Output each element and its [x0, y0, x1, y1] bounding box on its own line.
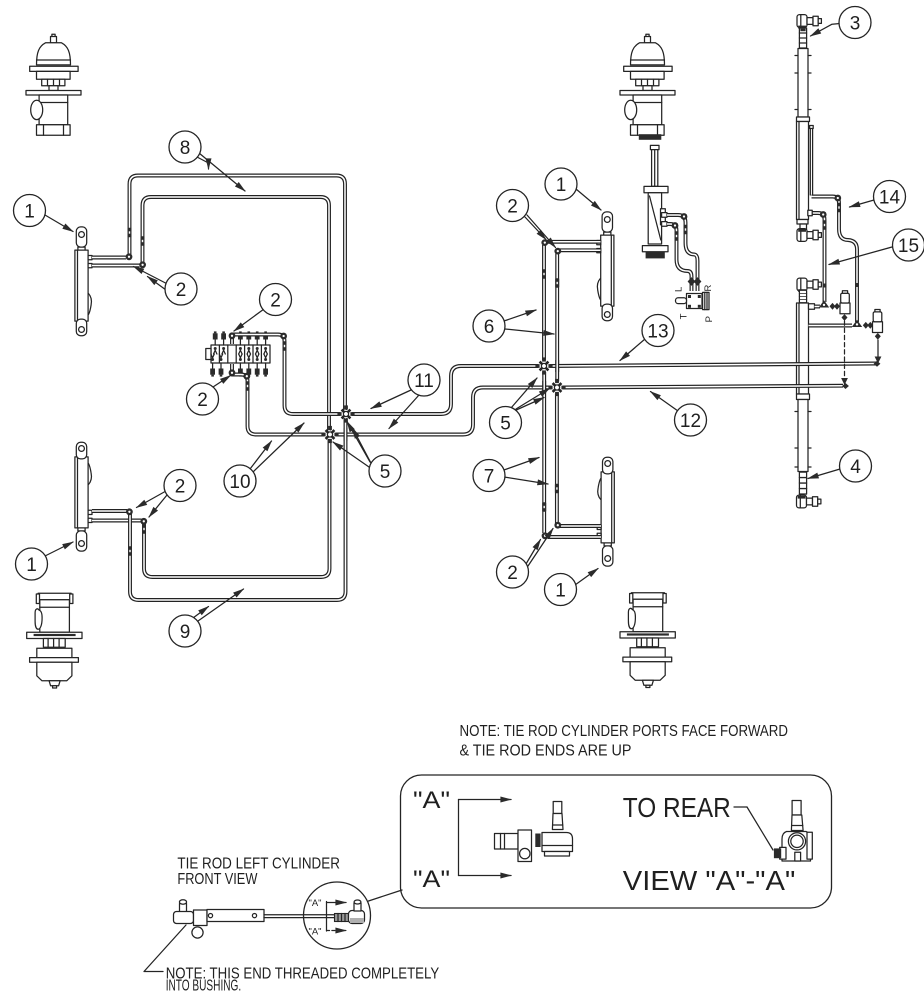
port tube MU upper	[547, 240, 601, 244]
hub assembly top middle	[620, 34, 675, 135]
callout 1 bottom middle	[545, 569, 599, 606]
svg-text:14: 14	[879, 187, 901, 208]
hose 9 outer	[130, 418, 346, 600]
port tube MU lower	[560, 248, 601, 252]
svg-text:P: P	[704, 316, 715, 322]
adjuster RL top	[799, 291, 806, 303]
callout 2 lower left	[137, 470, 197, 518]
elbow manifold top port	[229, 332, 236, 339]
svg-text:1: 1	[555, 580, 566, 601]
svg-text:8: 8	[180, 138, 191, 159]
hose 8 inner	[143, 197, 330, 431]
hose fitting valve R lower	[694, 277, 702, 286]
callout 8	[169, 131, 245, 191]
diamond under C1	[842, 314, 848, 321]
riser to component 13	[877, 340, 879, 360]
end fitting hose 12	[842, 383, 849, 389]
callout 14	[850, 181, 906, 213]
manifold bottom fittings	[210, 354, 268, 377]
port tube LL lower	[92, 519, 142, 523]
svg-text:L: L	[674, 287, 685, 292]
elbow LU upper	[126, 253, 133, 260]
steering valve hose R	[667, 215, 698, 291]
leader to rear	[734, 806, 747, 808]
svg-text:10: 10	[229, 472, 250, 493]
cross junction front axle B	[321, 426, 338, 443]
callout 6	[473, 310, 554, 342]
arm fittings RL upper	[830, 303, 836, 310]
elbow MU rear	[554, 248, 561, 255]
fitting dot 15	[823, 284, 827, 288]
hose fitting 7 front	[542, 502, 546, 512]
hose 14	[812, 197, 858, 323]
hose 6 rear	[555, 254, 559, 382]
hose fitting 6 rear	[555, 278, 559, 288]
leader detail circle to box	[369, 890, 403, 901]
svg-text:"A": "A"	[309, 927, 322, 938]
diamond under C2	[875, 333, 881, 340]
svg-text:R: R	[703, 285, 714, 292]
hose fitting manifold riser bottom	[246, 381, 250, 391]
elbow hose15 top	[820, 211, 827, 218]
cross junction rear axle A	[535, 357, 552, 374]
svg-text:VIEW "A"-"A": VIEW "A"-"A"	[623, 865, 796, 896]
svg-text:"A": "A"	[309, 898, 322, 909]
hub assembly top left	[26, 34, 81, 135]
arm fittings RL lower	[863, 322, 869, 329]
port line RL upper	[815, 305, 821, 309]
callout 13	[620, 315, 674, 361]
svg-text:T: T	[679, 313, 690, 319]
callout 1 upper left	[14, 195, 74, 232]
cylinder body RL	[797, 303, 815, 400]
crossing hose 7 front over hose 12	[542, 381, 546, 393]
svg-text:2: 2	[507, 563, 518, 584]
tie rod end RU bottom	[797, 229, 821, 242]
callout 5 left	[333, 422, 401, 488]
svg-text:1: 1	[26, 555, 37, 576]
svg-text:FRONT VIEW: FRONT VIEW	[177, 871, 257, 888]
port tube ML upper	[560, 524, 601, 528]
hose 7 rear	[555, 394, 559, 525]
steering cylinder lower middle	[597, 457, 614, 566]
steering cylinder lower left	[75, 442, 92, 551]
tie rod end RL bottom	[797, 495, 821, 508]
hose fitting manifold riser top	[283, 341, 287, 351]
callout 10	[224, 423, 304, 497]
hose 12	[563, 386, 843, 388]
callout 1 lower left	[16, 542, 74, 580]
port fitting RU lower	[808, 210, 812, 215]
elbow LL upper	[126, 508, 133, 515]
tie rod end rear view (in box)	[774, 801, 812, 862]
manifold top fittings	[213, 331, 268, 354]
svg-text:7: 7	[484, 466, 495, 487]
svg-text:5: 5	[380, 462, 391, 483]
rod tube RU	[795, 49, 811, 118]
elbow valve L	[672, 222, 679, 229]
hose fitting 9 outer	[128, 546, 132, 556]
hub assembly bottom middle	[620, 593, 675, 688]
tee fitting RL upper	[819, 300, 829, 307]
hose fitting valve L upper	[675, 231, 679, 241]
callout 5 right	[490, 378, 550, 439]
callout 2 manifold bottom	[187, 376, 231, 416]
end fitting hose 13	[874, 361, 881, 367]
hose fitting 6 front	[542, 269, 546, 279]
svg-text:"A": "A"	[413, 866, 450, 893]
svg-text:6: 6	[484, 317, 495, 338]
svg-text:TO REAR: TO REAR	[623, 792, 731, 823]
elbow manifold top corner	[280, 333, 287, 340]
hose 13	[550, 364, 876, 367]
elbow hose14 top	[834, 195, 841, 202]
elbow manifold bottom corner	[243, 373, 250, 380]
component C2 (restrictor)	[873, 310, 883, 333]
svg-text:& TIE ROD ENDS ARE UP: & TIE ROD ENDS ARE UP	[460, 743, 632, 760]
svg-text:1: 1	[24, 201, 35, 222]
steering column	[642, 145, 668, 258]
svg-text:TIE ROD LEFT CYLINDER: TIE ROD LEFT CYLINDER	[177, 856, 340, 873]
manifold hose bottom	[232, 364, 324, 435]
callout 2 upper left	[134, 267, 198, 306]
detail circle	[304, 882, 371, 949]
tie rod end RU top	[797, 15, 821, 28]
rod tube RL	[795, 400, 811, 472]
tie rod end side view (in box)	[495, 802, 573, 862]
hose fitting 9 inner	[142, 524, 146, 534]
hose 11 upper	[352, 366, 538, 414]
hose fitting 8 inner	[141, 236, 145, 246]
port tube LL upper	[92, 509, 127, 513]
elbow LL lower	[140, 518, 147, 525]
callout 2 bottom middle	[497, 529, 554, 589]
svg-text:INTO BUSHING.: INTO BUSHING.	[166, 978, 242, 995]
svg-text:15: 15	[898, 236, 919, 257]
riser to component 12 (hidden)	[844, 321, 846, 379]
hose fitting 7 rear	[555, 484, 559, 494]
tie rod end RL top	[797, 278, 821, 291]
callout 11	[371, 364, 440, 429]
callout 7	[473, 458, 548, 492]
callout 9	[169, 589, 244, 647]
crossing hose 9 outer over hose 11 lower	[344, 428, 348, 441]
adjuster RU top	[799, 28, 806, 48]
svg-text:2: 2	[197, 390, 208, 411]
svg-text:4: 4	[850, 457, 861, 478]
port line RL lower	[809, 324, 853, 328]
callout 15	[829, 229, 924, 265]
hose 15	[809, 213, 825, 302]
steering cylinder upper middle	[597, 212, 614, 321]
hose 8 outer	[130, 176, 346, 411]
port tube LU upper	[92, 256, 126, 260]
steering valve hose L	[667, 224, 692, 291]
elbow LU lower	[139, 261, 146, 268]
section arrows A	[459, 800, 512, 876]
steering cylinder upper left	[75, 227, 92, 336]
hose fitting 8 outer	[128, 228, 132, 238]
port tube LU lower	[92, 264, 140, 268]
svg-text:12: 12	[680, 411, 701, 432]
svg-text:NOTE: TIE ROD CYLINDER PORTS F: NOTE: TIE ROD CYLINDER PORTS FACE FORWAR…	[460, 723, 789, 740]
elbow valve R	[681, 213, 688, 220]
port tube ML lower	[548, 535, 602, 539]
callout 2 manifold top	[234, 284, 292, 332]
detail labels A	[309, 898, 347, 938]
svg-text:11: 11	[414, 371, 434, 392]
svg-text:2: 2	[270, 290, 281, 311]
hose 6 front	[542, 245, 546, 360]
hose fitting 14	[837, 203, 841, 213]
svg-text:3: 3	[850, 13, 861, 34]
svg-text:13: 13	[647, 321, 668, 342]
crossing hose 6 rear over hose 13	[555, 360, 559, 372]
hose 9 inner	[144, 439, 330, 577]
steering valve U1	[674, 285, 716, 323]
detail threads and ball end	[335, 900, 365, 924]
svg-text:5: 5	[500, 413, 511, 434]
valve manifold block	[206, 345, 270, 363]
tee fitting RL lower	[852, 320, 862, 327]
callout 4	[808, 450, 872, 482]
hose fitting valve R upper	[684, 225, 688, 235]
elbow ML front	[542, 532, 549, 539]
svg-text:2: 2	[176, 280, 187, 301]
svg-text:1: 1	[556, 175, 567, 196]
elbow manifold bottom port	[229, 369, 236, 376]
view box frame	[401, 775, 832, 908]
svg-text:9: 9	[180, 622, 191, 643]
callout 12	[651, 392, 707, 437]
leader note bushing	[144, 925, 186, 972]
cross junction front axle A	[337, 405, 354, 422]
manifold hose top	[232, 335, 340, 415]
callout 3	[811, 7, 872, 39]
elbow MU front	[541, 239, 548, 246]
adjuster RL bottom	[799, 472, 806, 494]
svg-text:2: 2	[507, 196, 518, 217]
cross junction rear axle B	[548, 379, 565, 396]
callout 1 center	[545, 168, 601, 210]
hose 11 lower	[336, 388, 551, 435]
tie rod cylinder front view	[174, 900, 335, 938]
cylinder body RU	[797, 117, 814, 230]
hose 7 front	[542, 372, 546, 533]
hose fitting valve L lower	[688, 277, 696, 286]
hose fitting 15	[823, 220, 827, 230]
component C1 (restrictor)	[840, 291, 850, 314]
svg-text:"A": "A"	[413, 787, 450, 814]
callout 2 center	[497, 190, 556, 248]
elbow ML rear	[554, 522, 561, 529]
svg-text:2: 2	[175, 476, 186, 497]
hub assembly bottom left	[27, 593, 82, 688]
fitting dot 14	[855, 283, 859, 287]
